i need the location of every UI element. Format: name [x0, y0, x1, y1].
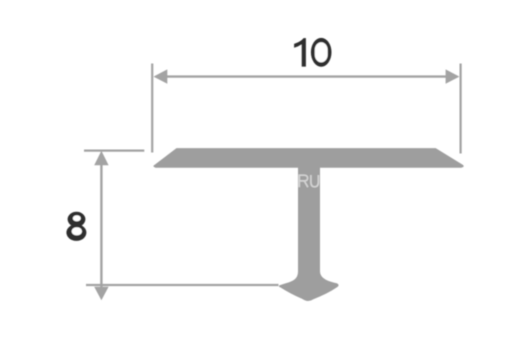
- dimension 8: dimension line: [100, 163, 102, 288]
- dimension 8: top extension line: [84, 150, 144, 152]
- dimension 10: left extension line: [151, 64, 153, 153]
- dimension 10: right extension line: [460, 64, 462, 154]
- dimension 8: value label (top bowl): [68, 212, 86, 227]
- dimension 8: bottom extension line: [86, 284, 279, 286]
- dimension 8: bottom arrowhead: [94, 287, 108, 301]
- dimension 10: value label digit 0: [311, 38, 332, 67]
- T-profile flange: [153, 148, 463, 168]
- T-profile stem: [298, 158, 320, 273]
- dimension 10: right arrowhead: [446, 69, 460, 83]
- dimension 10: value label digit 1: [294, 38, 306, 67]
- dimension 8: top arrowhead: [94, 151, 108, 165]
- watermark RU: [299, 175, 318, 187]
- dimension 10: dimension line: [164, 75, 449, 77]
- T-profile foot: [279, 271, 339, 301]
- dimension 8: value label (bottom bowl): [66, 224, 86, 241]
- dimension 10: left arrowhead: [154, 69, 168, 83]
